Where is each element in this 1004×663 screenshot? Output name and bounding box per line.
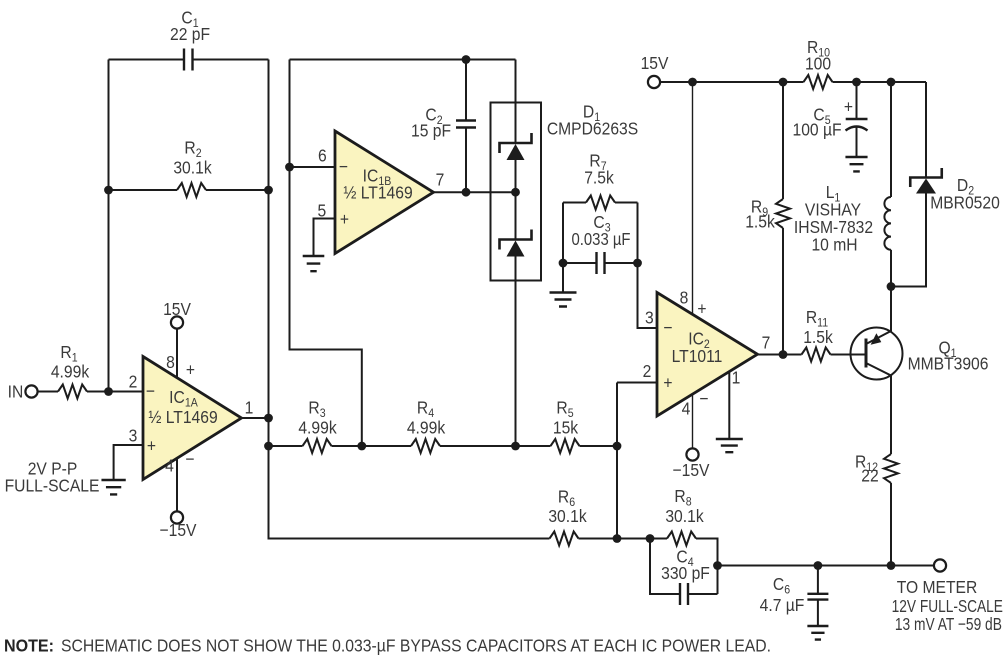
junction: R1 right / IC1A pin 2 node: [104, 387, 113, 396]
wire: right vertical of loop down to output node and R6 line: [269, 60, 550, 539]
svg-text:30.1k: 30.1k: [173, 157, 212, 177]
junction: L1/D2/Q1 emitter node: [887, 282, 896, 291]
svg-text:MMBT3906: MMBT3906: [908, 353, 989, 373]
svg-text:NOTE:: NOTE:: [4, 637, 54, 656]
svg-text:3: 3: [129, 425, 138, 445]
svg-text:100: 100: [805, 53, 831, 73]
wire: C1 right to top-right corner of loop: [193, 59, 269, 61]
svg-text:8: 8: [166, 352, 175, 372]
wire: 15V rail left of R10: [660, 81, 804, 83]
svg-text:15V: 15V: [163, 299, 192, 319]
ground: IC2 pin 1: [716, 439, 743, 452]
junction: R2 right: [264, 186, 273, 195]
svg-text:CMPD6263S: CMPD6263S: [547, 118, 638, 138]
junction: C2 bottom / pin 7 net: [462, 188, 471, 197]
component box D1: [491, 103, 542, 281]
svg-text:+: +: [697, 298, 706, 318]
wire: IC2 pin 2 stub: [617, 382, 657, 384]
svg-text:+: +: [663, 372, 672, 392]
ground: C6: [807, 626, 828, 640]
terminal: -15V IC1A: [171, 511, 183, 523]
junction: R8 left node: [646, 534, 655, 543]
svg-text:10 mH: 10 mH: [811, 234, 857, 254]
ground: IC1A pin 3: [101, 480, 125, 494]
inductor L1 (10 mH): [890, 82, 892, 197]
svg-text:−15V: −15V: [160, 520, 198, 540]
capacitor C4 (330 pF): [650, 539, 680, 595]
svg-text:+: +: [340, 209, 349, 229]
junction: R3/R4 node: [357, 442, 366, 451]
capacitor C6 (4.7 uF): [817, 566, 819, 594]
wire: R7/C3 right vertical to IC2 pin 3: [638, 203, 658, 329]
wire: IC2 output pin 7: [758, 354, 784, 356]
svg-text:15 pF: 15 pF: [411, 120, 451, 140]
junction: C4 right / output line: [713, 561, 722, 570]
op-amp IC1B (1/2 LT1469): [335, 131, 434, 254]
terminal: -15V IC2: [686, 448, 698, 460]
svg-text:5: 5: [317, 200, 326, 220]
wire: IC2 pin 4 supply: [692, 394, 694, 449]
svg-text:1.5k: 1.5k: [803, 327, 833, 347]
wire: D1 mid segment: [515, 160, 517, 240]
resistor R3 (4.99k): [269, 445, 303, 447]
junction: R9 top: [779, 78, 788, 87]
resistor R8 (30.1k): [617, 538, 667, 540]
wire: C1/R2 feedback loop top-left segment: [109, 59, 185, 61]
svg-text:7.5k: 7.5k: [584, 167, 614, 187]
svg-text:15V: 15V: [641, 53, 670, 73]
wire: D1 bottom down to R4/R5 node: [515, 256, 517, 446]
svg-text:½ LT1469: ½ LT1469: [148, 407, 217, 427]
svg-text:SCHEMATIC DOES NOT SHOW THE 0.: SCHEMATIC DOES NOT SHOW THE 0.033-µF BYP…: [61, 637, 771, 656]
wire: IC1A pin 4 supply: [176, 458, 178, 512]
resistor R1 (4.99k): [37, 391, 58, 393]
svg-text:8: 8: [680, 287, 689, 307]
resistor R9 (1.5k): [782, 82, 784, 199]
svg-text:4: 4: [682, 398, 691, 418]
svg-text:7: 7: [436, 169, 445, 189]
wire: R7/C3 left vertical to ground: [562, 203, 564, 293]
terminal: +15V IC1A: [171, 316, 183, 328]
svg-text:3: 3: [645, 307, 654, 327]
svg-text:30.1k: 30.1k: [548, 506, 587, 526]
diode D1 upper (zener symbol): [500, 133, 532, 153]
svg-text:TO METER: TO METER: [897, 577, 978, 597]
resistor R10 (100): [804, 75, 833, 89]
svg-text:+: +: [147, 435, 156, 455]
svg-text:−: −: [339, 156, 348, 176]
svg-text:−: −: [699, 388, 708, 408]
junction: C6 tap: [814, 561, 823, 570]
svg-text:IN: IN: [8, 381, 24, 401]
svg-text:1: 1: [732, 367, 741, 387]
wire: IC1A pin 8 supply: [176, 328, 178, 378]
svg-text:FULL-SCALE: FULL-SCALE: [5, 475, 100, 495]
junction: R6 right node: [613, 534, 622, 543]
svg-text:4: 4: [165, 455, 174, 475]
svg-text:−: −: [185, 449, 194, 469]
junction: C3 left: [559, 259, 568, 268]
transistor Q1 (MMBT3906 PNP): [851, 328, 903, 380]
svg-text:4.99k: 4.99k: [298, 417, 337, 437]
svg-text:−: −: [146, 381, 155, 401]
junction: pin 8 tap: [688, 78, 697, 87]
junction: C2 top: [462, 55, 471, 64]
junction: R3 left node: [264, 442, 273, 451]
wire: IC1B left vertical with jog to R3/R4 node: [290, 60, 362, 447]
svg-text:330 pF: 330 pF: [661, 563, 710, 583]
svg-text:30.1k: 30.1k: [665, 506, 704, 526]
wire: IC1B pin 5 stub to ground: [314, 219, 336, 257]
wire: IC2 pin 8 supply from 15V rail: [692, 82, 694, 315]
svg-text:15k: 15k: [553, 417, 579, 437]
capacitor C1 (22 pF): [184, 49, 193, 71]
terminal: IN: [25, 385, 37, 397]
capacitor C5 (100 uF polarized): [856, 82, 858, 119]
resistor R2 (30.1k): [109, 189, 178, 191]
svg-text:7: 7: [762, 332, 771, 352]
svg-text:−15V: −15V: [673, 460, 711, 480]
capacitor C3 (0.033 uF): [563, 262, 597, 264]
resistor R12 (22): [884, 454, 898, 483]
wire: IC1B output pin 7: [434, 191, 516, 193]
op-amp IC2 (LT1011): [657, 293, 758, 417]
junction: IC2 output node: [779, 350, 788, 359]
capacitor C2 (15 pF): [465, 60, 467, 121]
wire: IC2 pin 2 vertical: [616, 383, 618, 539]
svg-text:+: +: [186, 359, 195, 379]
svg-text:4.99k: 4.99k: [407, 417, 446, 437]
ground: IC1B pin 5: [303, 256, 325, 271]
svg-text:−: −: [663, 317, 672, 337]
wire: left vertical of C1/R2 loop down to R1 node: [108, 60, 110, 392]
wire: 15V rail right of R10: [833, 81, 927, 83]
svg-text:2: 2: [643, 361, 652, 381]
wire: IC1B pin 6 stub: [290, 166, 336, 168]
svg-text:4.7 µF: 4.7 µF: [760, 595, 805, 615]
diode D2 (MBR0520): [925, 82, 927, 178]
resistor R5 (15k): [516, 445, 551, 447]
junction: D1 midpoint / IC1B output: [511, 188, 520, 197]
wire: IC1B loop top: [290, 59, 516, 61]
op-amp IC1A (1/2 LT1469): [143, 357, 242, 480]
junction: R12 bottom / output line: [887, 561, 896, 570]
resistor R11 (1.5k): [783, 354, 802, 356]
ground: R7/C3 left: [550, 293, 577, 307]
wire: IC1A output pin 1: [242, 417, 269, 419]
resistor R6 (30.1k): [550, 532, 579, 546]
junction: R5 right / IC2 pin 2 node: [613, 442, 622, 451]
svg-text:22 pF: 22 pF: [170, 24, 210, 44]
svg-text:22: 22: [861, 465, 878, 485]
junction: R4/R5 node (D1 bottom): [511, 442, 520, 451]
junction: C3 right: [633, 259, 642, 268]
wire: IC1A pin 3 stub to ground: [114, 445, 143, 480]
svg-text:100 µF: 100 µF: [792, 119, 841, 139]
wire: output line to meter terminal: [718, 565, 935, 567]
svg-text:2: 2: [129, 371, 138, 391]
svg-text:LT1011: LT1011: [672, 346, 723, 366]
svg-text:0.033 µF: 0.033 µF: [572, 229, 631, 249]
wire: IC2 pin 1 to ground: [728, 372, 730, 439]
svg-text:MBR0520: MBR0520: [930, 192, 1000, 212]
svg-text:13 mV AT −59 dB: 13 mV AT −59 dB: [895, 614, 1002, 634]
svg-text:4.99k: 4.99k: [51, 361, 90, 381]
junction: C5 tap: [852, 78, 861, 87]
svg-text:1.5k: 1.5k: [745, 211, 775, 231]
svg-text:½ LT1469: ½ LT1469: [343, 182, 412, 202]
wire: top-wire corner down into D1: [515, 60, 517, 144]
junction: IC1B pin 6 node: [285, 163, 294, 172]
resistor R4 (4.99k): [362, 445, 411, 447]
svg-text:+: +: [844, 96, 853, 116]
junction: IC1A output node: [264, 414, 273, 423]
terminal: 15V rail: [648, 76, 660, 88]
wire: IC1A pin 2 stub: [109, 391, 144, 393]
ground: C5: [845, 157, 867, 171]
diode D1 lower (zener symbol): [500, 230, 532, 250]
junction: L1 top: [887, 78, 896, 87]
terminal: output to meter: [934, 559, 946, 571]
svg-text:6: 6: [318, 145, 327, 165]
resistor R7 (7.5k): [563, 202, 586, 204]
junction: R2 left: [104, 186, 113, 195]
svg-text:1: 1: [245, 397, 254, 417]
